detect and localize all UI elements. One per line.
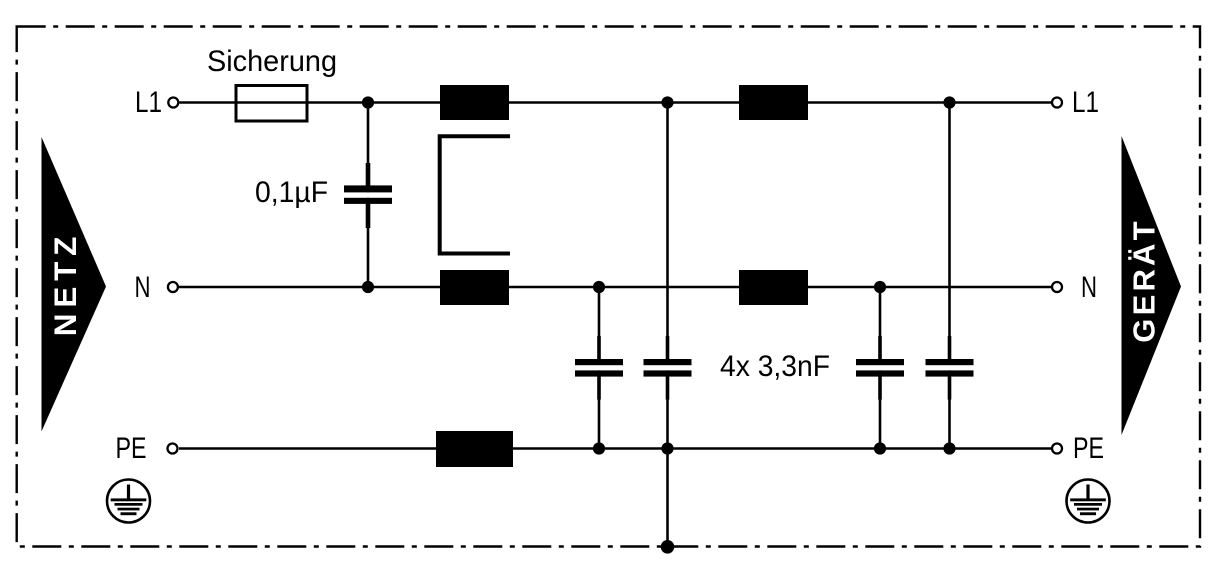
wire branch C2 and case ground [666, 103, 669, 547]
junction N-C1 [593, 281, 605, 293]
junction N-CX [362, 281, 374, 293]
svg-text:0,1µF: 0,1µF [255, 176, 328, 209]
capacitor C2 3,3nF [644, 336, 692, 400]
wire branch C1 [598, 287, 601, 449]
wire L1 line [179, 101, 1051, 104]
wire branch C3 [879, 287, 882, 449]
svg-text:PE: PE [116, 432, 147, 465]
wire N line [179, 286, 1051, 289]
earth symbol right [1067, 480, 1110, 523]
earth symbol left [107, 480, 150, 523]
terminal L1 left [168, 98, 178, 108]
capacitor C4 3,3nF [926, 336, 974, 400]
arrow NETZ [42, 137, 107, 432]
svg-text:GERÄT: GERÄT [1127, 218, 1162, 343]
choke L2b winding [739, 270, 808, 305]
svg-text:L1: L1 [1072, 86, 1099, 119]
svg-text:N: N [135, 271, 151, 304]
terminal PE right [1052, 444, 1062, 454]
junction L1-C2 [661, 96, 673, 108]
terminal PE left [168, 444, 178, 454]
svg-text:L1: L1 [135, 86, 162, 119]
junction case-PE [661, 540, 675, 554]
junction L1-CX [362, 96, 374, 108]
capacitor C3 3,3nF [856, 336, 904, 400]
choke core bracket [440, 136, 510, 253]
capacitor C1 3,3nF [575, 336, 623, 400]
fuse F1 (Sicherung) [236, 86, 307, 122]
arrow GERAET [1122, 136, 1182, 435]
junction PE-C3 [874, 442, 886, 454]
svg-text:Sicherung: Sicherung [207, 45, 337, 78]
terminal N right [1052, 282, 1062, 292]
svg-text:NETZ: NETZ [47, 231, 83, 336]
terminal L1 right [1052, 98, 1062, 108]
choke L1a winding [440, 85, 509, 120]
svg-text:N: N [1081, 271, 1097, 304]
wire PE line [179, 447, 1051, 450]
svg-text:4x 3,3nF: 4x 3,3nF [720, 350, 830, 383]
choke L3 PE winding [436, 431, 513, 467]
choke L1b winding [440, 270, 509, 305]
terminal N left [168, 282, 178, 292]
junction L1-C4 [943, 96, 955, 108]
junction PE-C2 [661, 442, 673, 454]
capacitor CX 0,1uF [344, 163, 392, 228]
junction PE-C4 [943, 442, 955, 454]
junction N-C3 [874, 281, 886, 293]
wire branch capacitor CX 0,1uF [367, 103, 370, 288]
choke L2a winding [739, 85, 808, 120]
junction PE-C1 [593, 442, 605, 454]
svg-text:PE: PE [1073, 432, 1104, 465]
wire branch C4 [948, 103, 951, 449]
